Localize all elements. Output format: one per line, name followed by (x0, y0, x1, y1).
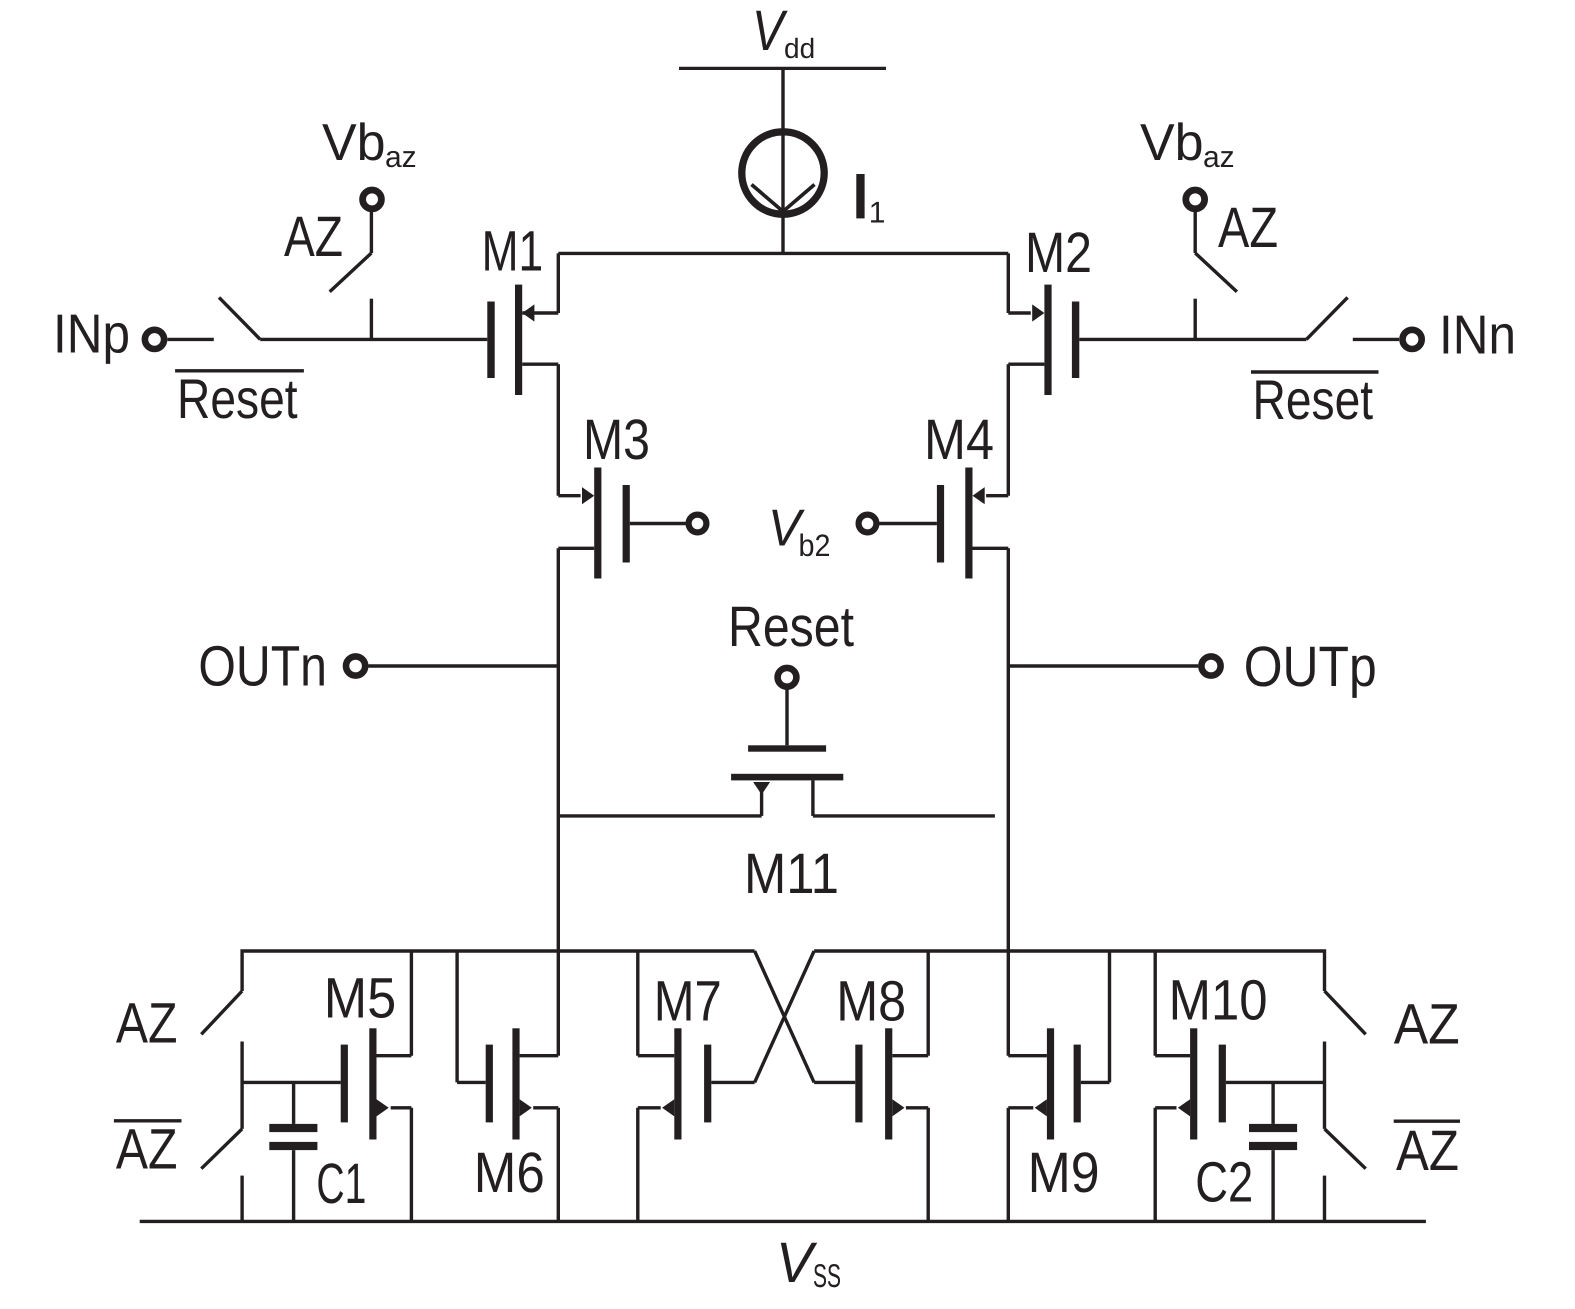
svg-text:M6: M6 (474, 1141, 545, 1205)
transistor M8 (814, 951, 928, 1222)
switch AZbar (bottom right) (1325, 1129, 1366, 1222)
wire cross-coupling X: M7 gate to right node (755, 951, 815, 1082)
node AZ contact on INn wire (1193, 299, 1196, 340)
svg-text:AZ: AZ (1218, 196, 1278, 260)
wire Vdd to current source to tail node (781, 68, 784, 253)
svg-text:SS: SS (813, 1257, 841, 1294)
terminal Vbaz (right) (1186, 190, 1205, 209)
svg-text:V: V (776, 1231, 818, 1295)
svg-text:M7: M7 (654, 970, 722, 1034)
svg-text:V: V (752, 0, 788, 63)
capacitor C1 (269, 1082, 317, 1221)
svg-text:C1: C1 (316, 1152, 366, 1216)
svg-text:M9: M9 (1028, 1141, 1100, 1205)
transistor M10 (1155, 951, 1324, 1222)
terminal INp (145, 330, 164, 349)
label Vbaz (right) (1140, 114, 1235, 174)
transistor M2 (1008, 253, 1079, 495)
terminal OUTn (346, 656, 365, 675)
terminal OUTp (1201, 656, 1220, 675)
wire OUTp (1008, 664, 1198, 667)
switch AZ (bottom right) (1325, 991, 1366, 1129)
node AZ contact on INp wire (370, 299, 373, 340)
svg-text:Reset: Reset (728, 595, 854, 659)
switch Reset (right input) (1306, 297, 1347, 339)
svg-text:M8: M8 (836, 970, 906, 1034)
transistor M7 (638, 951, 755, 1222)
wire M11 drain toward OUTp column (813, 814, 995, 817)
svg-text:INn: INn (1439, 304, 1516, 366)
label Reset (left, with overbar) (175, 367, 304, 430)
switch AZbar (bottom left) (201, 1129, 242, 1222)
terminal Vbaz (left) (363, 190, 382, 209)
svg-text:M3: M3 (583, 408, 650, 472)
svg-text:M4: M4 (924, 408, 994, 472)
svg-text:M10: M10 (1169, 969, 1268, 1033)
svg-text:OUTp: OUTp (1244, 635, 1377, 699)
svg-text:az: az (1203, 141, 1235, 174)
svg-text:Vb: Vb (1140, 114, 1204, 172)
terminal Vb2 (left) (689, 515, 707, 533)
terminal Reset (M11 gate) (778, 668, 797, 687)
svg-text:INp: INp (53, 303, 130, 365)
svg-text:1: 1 (869, 197, 886, 230)
terminal Vb2 (right) (859, 515, 877, 533)
wire OUTn (368, 664, 558, 667)
wire INn to Reset switch (1353, 338, 1399, 341)
svg-text:M5: M5 (324, 967, 396, 1031)
svg-text:Vb: Vb (322, 114, 386, 172)
svg-text:AZ: AZ (284, 205, 343, 269)
wire AZ switches to M5 gate (242, 1081, 341, 1084)
svg-text:AZ: AZ (116, 1118, 178, 1182)
label Vbaz (left) (322, 114, 417, 174)
svg-text:Reset: Reset (177, 367, 298, 430)
transistor M1 (487, 253, 558, 495)
label Vdd (752, 0, 815, 64)
wire cross-coupling X: M8 gate to left node (755, 951, 815, 1082)
svg-text:b2: b2 (799, 528, 831, 563)
Vdd rail (679, 67, 886, 70)
transistor M4 (876, 468, 1008, 579)
svg-text:Reset: Reset (1253, 368, 1374, 431)
transistor M3 (558, 468, 689, 579)
wire Reset switch to M1 gate (260, 338, 487, 341)
capacitor C2 (1249, 1082, 1297, 1221)
label Vb2 (768, 500, 831, 564)
transistor M6 (457, 951, 558, 1222)
label I1 (856, 174, 885, 230)
transistor M9 (1008, 951, 1109, 1222)
svg-text:M2: M2 (1025, 221, 1092, 285)
svg-text:az: az (385, 141, 417, 174)
svg-text:C2: C2 (1195, 1151, 1253, 1215)
current source I1 (742, 132, 824, 214)
wire bottom rail top-left segment with AZ switch corner (242, 951, 755, 991)
Vss rail (140, 1220, 1426, 1223)
label AZbar (bottom right) (1394, 1119, 1460, 1183)
svg-text:M11: M11 (744, 842, 839, 906)
wire OUTp column (M4 drain down to M9 drain) (1007, 548, 1010, 1055)
wire Reset switch to M2 gate (1079, 338, 1306, 341)
wire OUTn column (M3 drain down to M6 drain) (557, 548, 560, 1055)
wire M11 source to OUTn column (558, 814, 761, 817)
svg-text:AZ: AZ (1394, 993, 1460, 1057)
switch AZ (left input): stem and arm (330, 212, 372, 292)
svg-text:OUTn: OUTn (198, 635, 327, 699)
label Vss (776, 1231, 841, 1295)
wire tail node (common source of M1/M2) (558, 252, 1008, 255)
svg-text:AZ: AZ (116, 992, 178, 1056)
wire INp to Reset switch (168, 338, 214, 341)
transistor M5 (341, 951, 412, 1222)
svg-text:dd: dd (784, 33, 815, 64)
transistor M11 (731, 689, 843, 816)
switch AZ (right input): stem and arm (1195, 212, 1237, 292)
svg-text:AZ: AZ (1396, 1119, 1459, 1183)
switch Reset (left input) (219, 297, 260, 339)
svg-text:M1: M1 (482, 220, 544, 284)
label Reset (right, with overbar) (1251, 368, 1379, 431)
wire bottom rail top-right segment with AZ switch corner (814, 951, 1324, 991)
terminal INn (1403, 330, 1422, 349)
label AZbar (bottom left) (114, 1118, 182, 1182)
switch AZ (bottom left) (201, 991, 242, 1129)
